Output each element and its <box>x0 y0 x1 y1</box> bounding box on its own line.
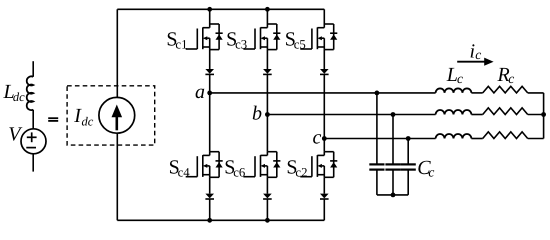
wire resistor to right bus <box>528 114 544 116</box>
dashed equivalence box <box>67 86 155 145</box>
switch Sc2: MOSFET body <box>300 152 333 178</box>
wire node to Sc2 <box>323 139 325 152</box>
wire top bus <box>117 8 324 10</box>
resistor R_c (phase b) <box>483 108 528 115</box>
switch Sc5: MOSFET body <box>300 24 333 50</box>
svg-text:c: c <box>508 71 514 86</box>
wire capacitor to bus <box>407 170 409 195</box>
resistor R_c (phase a) <box>483 86 528 93</box>
voltage source V <box>21 129 46 154</box>
svg-text:c2: c2 <box>295 166 307 180</box>
wire top stub of source branch <box>32 61 34 77</box>
body diode of Sc5 <box>330 24 337 50</box>
junction top bus col 1 <box>207 7 212 12</box>
wire top bus to Sc1 <box>209 9 211 24</box>
wire top bus to Sc5 <box>323 9 325 24</box>
wire row to capacitor C_c2 <box>392 115 394 165</box>
svg-text:c4: c4 <box>178 166 191 180</box>
wire row b <box>267 114 435 116</box>
body diode of Sc3 <box>273 24 280 50</box>
body diode of Sc1 <box>216 24 223 50</box>
wire Sc2 to diode <box>323 177 325 193</box>
wire capacitor to bus <box>376 170 378 195</box>
wire top bus to Sc3 <box>266 9 268 24</box>
wire left vertical (top half) <box>116 9 118 97</box>
svg-text:c: c <box>475 47 481 62</box>
inductor L_c (phase b) <box>436 110 472 114</box>
wire bottom bus <box>117 219 324 221</box>
wire row a <box>210 92 436 94</box>
wire resistor to right bus <box>528 138 544 140</box>
wire node to Sc4 <box>209 93 211 152</box>
current arrow i_c <box>457 58 493 66</box>
wire left vertical (bottom half) <box>116 133 118 220</box>
series diode of Sc5 <box>320 69 329 74</box>
wire diode to bottom bus <box>323 199 325 220</box>
inductor L_c (phase c) <box>436 134 472 138</box>
series diode of Sc6 <box>263 194 272 199</box>
wire diode to node <box>323 74 325 138</box>
label C_c <box>417 157 434 180</box>
svg-text:c6: c6 <box>233 166 246 180</box>
svg-text:dc: dc <box>82 115 94 129</box>
svg-text:c3: c3 <box>235 38 247 52</box>
switch Sc4: MOSFET body <box>186 152 219 178</box>
wire Sc6 to diode <box>266 177 268 193</box>
label S_c2 <box>286 157 307 180</box>
wire between L_dc and V <box>32 110 34 129</box>
series diode of Sc1 <box>205 69 214 74</box>
node a <box>207 91 212 96</box>
junction bottom bus col 2 <box>265 218 270 223</box>
svg-text:c5: c5 <box>294 38 306 52</box>
svg-text:b: b <box>252 103 262 125</box>
wire capacitor bottom bus <box>377 194 408 196</box>
svg-text:i: i <box>470 41 476 63</box>
junction row cap 2 <box>391 112 396 117</box>
wire capacitor to bus <box>392 170 394 195</box>
node c <box>322 136 327 141</box>
wire diode to bottom bus <box>266 199 268 220</box>
series diode of Sc3 <box>263 69 272 74</box>
label L_dc <box>3 81 26 104</box>
wire coil to resistor <box>471 92 482 94</box>
label S_c3 <box>226 29 247 52</box>
svg-text:dc: dc <box>13 90 25 104</box>
current source I_dc <box>99 97 135 133</box>
wire row to capacitor C_c3 <box>407 139 409 165</box>
label R_c <box>497 64 515 86</box>
wire diode to node <box>209 74 211 93</box>
node b <box>265 112 270 117</box>
capacitor C_c (2) <box>385 164 400 169</box>
wire Sc1 to diode <box>209 50 211 69</box>
equals sign <box>48 118 58 121</box>
junction row cap 3 <box>406 136 411 141</box>
wire resistor to right bus <box>528 92 544 94</box>
wire row to capacitor C_c1 <box>376 93 378 164</box>
junction right vertical row b <box>541 112 546 117</box>
wire coil to resistor <box>471 138 482 140</box>
resistor R_c (phase c) <box>483 132 528 139</box>
svg-text:c: c <box>457 71 463 86</box>
wire row c <box>324 138 435 140</box>
svg-text:c: c <box>428 164 434 179</box>
svg-text:a: a <box>195 81 205 103</box>
wire bottom stub of source branch <box>32 154 34 172</box>
switch Sc3: MOSFET body <box>243 24 276 50</box>
inductor L_c (phase a) <box>436 88 472 92</box>
wire Sc3 to diode <box>266 50 268 69</box>
inductor L_dc <box>27 76 33 110</box>
label S_c1 <box>166 29 187 52</box>
svg-text:c: c <box>313 127 322 149</box>
junction capacitor bus <box>391 193 396 198</box>
capacitor C_c (1) <box>369 164 384 169</box>
label I_dc <box>73 105 93 129</box>
wire right vertical <box>543 93 545 139</box>
wire diode to bottom bus <box>209 199 211 220</box>
series diode of Sc4 <box>205 194 214 199</box>
wire diode to node <box>266 74 268 114</box>
body diode of Sc6 <box>273 152 280 178</box>
body diode of Sc2 <box>330 152 337 178</box>
svg-text:c1: c1 <box>175 38 187 52</box>
wire node to Sc6 <box>266 115 268 152</box>
label S_c4 <box>169 157 191 180</box>
switch Sc6: MOSFET body <box>243 152 276 178</box>
label S_c5 <box>285 29 306 52</box>
series diode of Sc2 <box>320 194 329 199</box>
wire Sc4 to diode <box>209 177 211 193</box>
wire Sc5 to diode <box>323 50 325 69</box>
label S_c6 <box>224 157 246 180</box>
junction top bus col 2 <box>265 7 270 12</box>
junction row cap 1 <box>375 91 380 96</box>
switch Sc1: MOSFET body <box>186 24 219 50</box>
label i_c <box>470 41 482 63</box>
body diode of Sc4 <box>216 152 223 178</box>
wire coil to resistor <box>471 114 482 116</box>
capacitor C_c (3) <box>401 164 416 169</box>
junction bottom bus col 1 <box>207 218 212 223</box>
label L_c <box>446 64 463 86</box>
